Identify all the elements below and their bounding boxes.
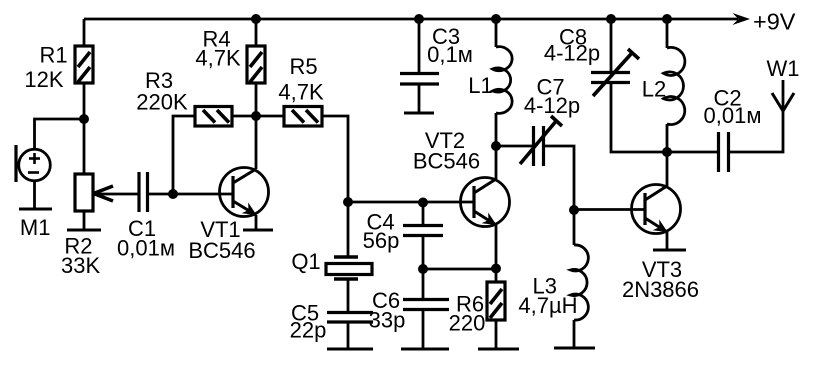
resistor R3 bbox=[195, 107, 232, 127]
wire emitter line bbox=[423, 268, 496, 271]
svg-text:33K: 33K bbox=[61, 253, 100, 278]
wire C3 top bbox=[418, 19, 421, 73]
node C4 top junction bbox=[418, 198, 428, 208]
capacitor C2 bbox=[719, 132, 729, 172]
wire C8 top bbox=[610, 19, 613, 73]
capacitor C1 bbox=[139, 172, 148, 212]
inductor L2 bbox=[664, 47, 685, 124]
wire C5 to ground bbox=[347, 322, 350, 349]
node L2 rail junction bbox=[662, 14, 672, 24]
wire R1 top bbox=[83, 19, 86, 46]
wire L2 bottom bbox=[666, 124, 669, 152]
node R1/R2/M1 junction bbox=[79, 114, 89, 124]
svg-text:R5: R5 bbox=[289, 54, 317, 79]
wire C1 to VT1 base bbox=[149, 193, 234, 196]
crystal Q1 bbox=[326, 257, 372, 279]
resistor R1 bbox=[75, 46, 93, 83]
svg-text:0,01м: 0,01м bbox=[117, 236, 175, 261]
ground R6 bbox=[478, 348, 519, 351]
svg-text:L1: L1 bbox=[468, 73, 492, 98]
wire M1 to ground bbox=[33, 181, 36, 209]
node C4/C6 junction bbox=[418, 264, 428, 274]
resistor R5 bbox=[284, 107, 322, 127]
svg-text:+9V: +9V bbox=[753, 9, 796, 35]
wire C4 top bbox=[422, 202, 425, 225]
ground R2 bbox=[67, 229, 101, 232]
wire VT2 base line bbox=[348, 201, 475, 204]
node C8 rail junction bbox=[606, 14, 616, 24]
wire L3 bottom bbox=[573, 320, 576, 348]
capacitor C6 bbox=[403, 269, 449, 310]
node VT2 emitter junction bbox=[491, 264, 501, 274]
svg-text:4,7µH: 4,7µH bbox=[518, 293, 577, 318]
node Q1 top junction bbox=[343, 197, 353, 207]
svg-text:Q1: Q1 bbox=[291, 249, 320, 274]
ground L3 bbox=[554, 347, 595, 350]
svg-text:L2: L2 bbox=[642, 77, 666, 102]
microphone M1 bbox=[16, 145, 50, 182]
transistor VT2 bbox=[461, 178, 510, 227]
inductor L3 bbox=[571, 210, 589, 320]
svg-text:4,7K: 4,7K bbox=[195, 46, 241, 71]
wire L1 bottom bbox=[495, 113, 498, 146]
wire L2 top bbox=[666, 19, 669, 48]
node L2/C2/VT3 collector junction bbox=[662, 147, 672, 157]
ground M1 bbox=[19, 208, 52, 211]
transistor VT1 bbox=[220, 168, 269, 217]
wire M1 branch bbox=[35, 119, 85, 149]
wire Q1 to C5 bbox=[347, 279, 350, 312]
wire VT2 collector bbox=[495, 146, 498, 179]
node L1 rail junction bbox=[491, 14, 501, 24]
wire R2 wiper to C1 bbox=[96, 193, 138, 196]
resistor R4 bbox=[247, 46, 265, 83]
trimmer capacitor C8 bbox=[591, 49, 639, 96]
wire R4 top bbox=[255, 19, 258, 46]
node C3 rail junction bbox=[414, 14, 424, 24]
wire C3 bottom bbox=[418, 84, 421, 113]
wire C2 left bbox=[667, 151, 718, 154]
svg-text:4-12p: 4-12p bbox=[544, 41, 600, 66]
ground VT3 bbox=[653, 249, 686, 252]
svg-text:2N3866: 2N3866 bbox=[622, 277, 699, 302]
wire R3 left leg bbox=[173, 116, 195, 194]
wire R3 right to node bbox=[232, 115, 284, 118]
wire VT3 base bbox=[574, 208, 645, 211]
capacitor C3 bbox=[400, 74, 439, 85]
svg-text:22p: 22p bbox=[290, 318, 327, 343]
potentiometer R2 bbox=[75, 174, 113, 211]
trimmer capacitor C7 bbox=[520, 116, 562, 166]
node L1/C7/VT2 collector junction bbox=[491, 141, 501, 151]
wire R1 bottom to R2 bbox=[83, 83, 86, 174]
svg-text:BC546: BC546 bbox=[188, 238, 255, 263]
inductor L1 bbox=[493, 47, 513, 114]
resistor R6 bbox=[487, 282, 505, 320]
node R4 rail junction bbox=[251, 14, 261, 24]
wire R6 bottom bbox=[495, 320, 498, 349]
ground C3 bbox=[404, 112, 434, 115]
node L3/VT3 base junction bbox=[569, 205, 579, 215]
ground VT1 bbox=[243, 229, 273, 232]
wire C2 right to antenna bbox=[730, 80, 784, 152]
capacitor C5 bbox=[327, 313, 373, 323]
wire +9V top rail bbox=[84, 18, 738, 21]
wire R4 bottom bbox=[255, 83, 258, 116]
svg-text:0,1м: 0,1м bbox=[427, 42, 473, 67]
antenna W1 bbox=[772, 93, 794, 111]
wire C4 bottom bbox=[422, 236, 425, 270]
wire R6 top bbox=[495, 269, 498, 283]
wire R5 right to Q1 node bbox=[322, 116, 348, 202]
capacitor C4 bbox=[403, 226, 443, 236]
wire Q1 top bbox=[347, 202, 350, 257]
svg-text:33p: 33p bbox=[369, 308, 406, 333]
transistor VT3 bbox=[632, 185, 681, 234]
node R3/R4/R5 junction bbox=[251, 111, 261, 121]
svg-text:220K: 220K bbox=[136, 90, 188, 115]
svg-text:R1: R1 bbox=[39, 43, 67, 68]
wire VT1 emitter bbox=[255, 215, 258, 230]
wire C6 to ground bbox=[422, 310, 425, 350]
node C1/R3/VT1 junction bbox=[168, 189, 178, 199]
svg-text:BC546: BC546 bbox=[413, 149, 480, 174]
svg-text:4-12p: 4-12p bbox=[524, 93, 580, 118]
wire R2 bottom bbox=[83, 211, 86, 230]
ground C6 bbox=[401, 348, 449, 351]
svg-text:12K: 12K bbox=[24, 67, 63, 92]
svg-text:220: 220 bbox=[449, 311, 486, 336]
svg-text:W1: W1 bbox=[767, 56, 800, 81]
svg-text:M1: M1 bbox=[20, 215, 51, 240]
wire VT3 collector bbox=[666, 152, 669, 186]
ground C5 bbox=[327, 348, 373, 351]
svg-text:4,7K: 4,7K bbox=[278, 80, 324, 105]
wire C7 left bbox=[496, 145, 533, 148]
wire VT2 emitter bbox=[495, 225, 498, 269]
wire C8 bottom bbox=[611, 83, 667, 153]
svg-text:56p: 56p bbox=[363, 228, 400, 253]
+9V arrowhead bbox=[733, 13, 751, 25]
wire VT3 emitter bbox=[666, 232, 669, 250]
svg-text:0,01м: 0,01м bbox=[704, 103, 762, 128]
wire VT1 collector bbox=[255, 116, 258, 169]
wire C7 right to L3 node bbox=[545, 146, 575, 210]
wire L1 top bbox=[495, 19, 498, 47]
